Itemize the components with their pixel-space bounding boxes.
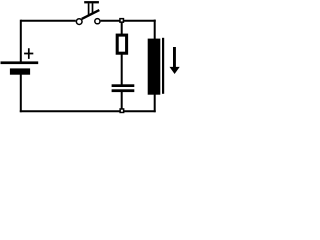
node: top junction open square [120, 19, 124, 23]
switch right contact circle [95, 19, 100, 24]
capacitor bottom plate [112, 89, 135, 92]
wire: left vertical from top wire down to battery positive plate [20, 20, 22, 62]
switch actuator right leg [92, 3, 94, 13]
load: thick filled bar (polarized component plate) [148, 39, 161, 95]
wire: top-left horizontal from battery to switch left contact [21, 20, 76, 22]
wire: middle branch from top junction down to resistor [121, 22, 123, 34]
wire: right branch vertical from load bar down to bottom wire [154, 94, 156, 112]
wire: top horizontal from switch right contact to right branch corner [101, 20, 156, 22]
load: thin bar plate [162, 38, 164, 94]
battery positive plate (long thin) [1, 61, 39, 64]
switch left contact circle [76, 19, 82, 25]
switch lever (open) [82, 10, 100, 19]
wire: middle branch from resistor down to capacitor [121, 54, 123, 85]
node: bottom junction open square [120, 109, 124, 113]
switch push-button actuator cap bar [84, 1, 99, 3]
wire: left vertical from battery negative plate down to bottom wire [20, 74, 22, 112]
wire: right branch vertical from top wire down to load bar [154, 20, 156, 39]
resistor (rectangle) [117, 35, 126, 53]
capacitor top plate [112, 84, 135, 87]
battery plus sign [24, 48, 33, 59]
battery negative plate (short thick) [10, 68, 30, 74]
current direction arrow head [170, 67, 180, 74]
wire: middle branch from capacitor down to bottom junction [121, 92, 123, 111]
current direction arrow shaft [173, 47, 176, 67]
wire: bottom horizontal rail [20, 110, 156, 112]
switch actuator left leg [88, 3, 90, 15]
